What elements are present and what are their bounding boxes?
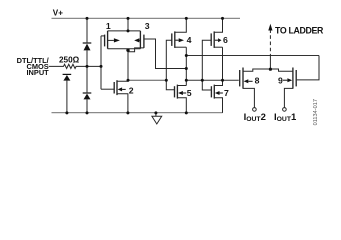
svg-text:5: 5 — [187, 88, 192, 98]
svg-text:8: 8 — [255, 75, 260, 85]
svg-text:3: 3 — [145, 21, 150, 31]
svg-text:01134-017: 01134-017 — [313, 99, 319, 125]
svg-text:4: 4 — [187, 35, 192, 45]
svg-text:250Ω: 250Ω — [59, 56, 80, 65]
svg-text:TO LADDER: TO LADDER — [275, 26, 324, 36]
svg-text:7: 7 — [224, 88, 229, 98]
svg-text:9: 9 — [278, 75, 283, 85]
svg-text:2: 2 — [129, 86, 134, 96]
svg-text:6: 6 — [223, 35, 228, 45]
svg-text:1: 1 — [106, 21, 111, 31]
svg-text:V+: V+ — [53, 9, 63, 18]
svg-text:INPUT: INPUT — [27, 68, 50, 77]
